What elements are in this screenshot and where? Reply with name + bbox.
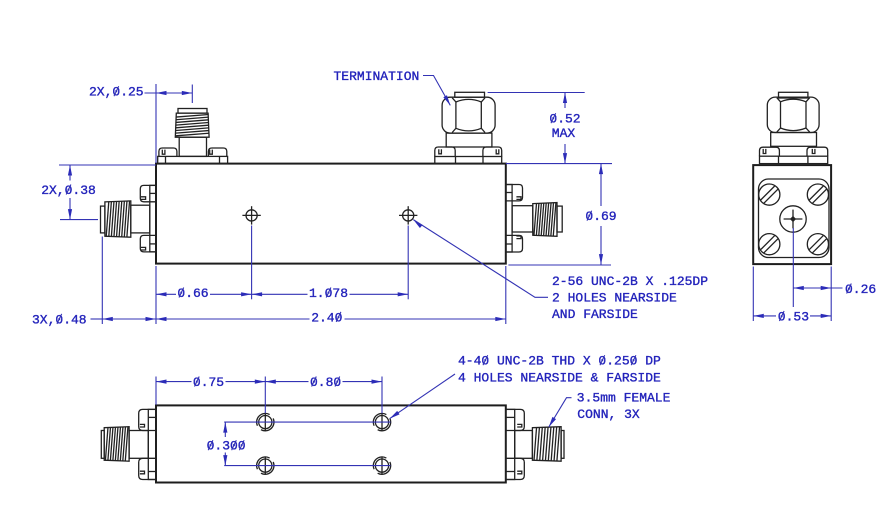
dimension 2X,0.38: extension line at body top edge (left) [59,164,156,166]
side view: flange screw S4 [807,234,828,255]
top view: SMA female connector J2 (input port, left end) [101,206,105,233]
dimension 1.078: dimension line and arrows [252,293,308,295]
leader 3.5mm connector: leader line and arrow [549,398,572,427]
dimension 0.52 MAX: extension line at body top edge (right) [506,163,612,165]
svg-text:0.53: 0.53 [778,309,809,324]
dimension 2.40: extension line at body right edge (bottom) [505,266,507,324]
bottom view: tapped hole T1 (4-40) [264,413,266,430]
dimension 2X,0.38: extension line at J2 centerline [60,219,98,221]
dimension 2X,0.25: dimension line and arrows [145,92,193,94]
dimension 0.26: centerline from pin [792,228,794,307]
dimension 0.66 / 1.078: extension line from hole H2 [407,226,409,300]
svg-text:4 HOLES NEARSIDE & FARSIDE: 4 HOLES NEARSIDE & FARSIDE [458,370,661,385]
dimension 0.75: dimension line and arrows [156,381,192,383]
svg-text:0.26: 0.26 [845,282,876,297]
side view: center pin contact [780,206,806,232]
dimension 0.75 / 0.80: extension line at body left edge (bottom view) [155,377,157,405]
top view: SMA female connector J1 (coupled port, top left) [178,109,207,114]
svg-text:0.52: 0.52 [549,112,580,127]
svg-text:0.69: 0.69 [585,209,616,224]
side view: coupler body end face [753,165,831,264]
bottom view: SMA female connector J2 (left end) [101,431,104,459]
dimension 3X,0.48: extension line at body left edge (bottom) [155,266,157,324]
dimension 0.66 / 1.078: extension line from hole H1 [251,226,253,300]
dimension 2X,0.38: dimension line and arrows [69,165,71,181]
dimension 0.300: centerline through holes T3-T4 [224,465,390,467]
top view: SMA female connector J3 (output port, right end) [557,206,562,232]
dimension 0.69: extension line at body bottom edge (right) [508,264,611,266]
svg-text:TERMINATION: TERMINATION [334,69,420,84]
leader TERMINATION: leader line and arrow [423,76,450,106]
dimension 0.75 / 0.80: extension line from hole T1 [264,377,266,414]
svg-text:2-56 UNC-2B X .125DP: 2-56 UNC-2B X .125DP [552,274,708,289]
dimension 0.80: dimension line and arrows [265,381,308,383]
leader 2-56 holes: arrow and leader line [413,220,422,228]
side view: flange screw S3 [759,234,780,255]
dimension 0.26: extension line at flange right edge [830,267,832,322]
dimension 0.26: dimension line and arrows [793,287,842,289]
dimension 2X,0.25: extension tick at J1 centerline [191,85,193,104]
bottom view: tapped hole T3 (4-40) [264,457,266,474]
dimension 0.53: extension line at flange left edge [752,267,754,322]
svg-text:AND FARSIDE: AND FARSIDE [552,307,638,322]
dimension 3X,0.48: dimension line and arrows [91,318,103,320]
bottom view: coupler body outline [156,405,506,482]
dimension 0.53: dimension line and arrows [753,315,776,317]
dimension 0.69: dimension line and arrows [600,164,602,206]
svg-text:0.75: 0.75 [193,375,224,390]
top view: mounting hole H1 (2-56) [251,206,253,224]
dimension 0.75 / 0.80: extension line from hole T2 [381,377,383,414]
dimension 2.40: dimension line and arrows [156,318,310,320]
dimension 0.52 MAX: extension line at termination top [488,92,585,94]
svg-text:2 HOLES NEARSIDE: 2 HOLES NEARSIDE [552,291,677,306]
dimension 0.300: dimension line and arrows [224,422,226,437]
dimension 0.52 MAX: dimension line and arrows [564,93,566,109]
top view: SMA male termination connector J4 [455,92,485,97]
side view: flange screw S2 [807,184,828,205]
bottom view: SMA female connector J3 (right end) [561,431,564,459]
leader 4-40 holes: leader line and arrow [390,374,455,419]
side view: connector flange plate [759,179,830,258]
bottom view: tapped hole T4 (4-40) [381,457,383,474]
svg-text:MAX: MAX [552,126,576,141]
dimension 0.300: centerline through holes T1-T2 [224,421,390,423]
bottom view: tapped hole T2 (4-40) [381,413,383,430]
svg-text:4-40 UNC-2B THD X 0.250 DP: 4-40 UNC-2B THD X 0.250 DP [458,354,661,369]
dimension 2X,0.25: extension line at body left edge [155,84,157,163]
dimension 3X,0.48: extension line at connector tip [101,237,103,325]
top view: mounting hole H2 (2-56) [407,206,409,224]
svg-text:3.5mm FEMALE: 3.5mm FEMALE [577,391,671,406]
side view: SMA male connector (top) [779,92,808,98]
top view: coupler body outline [156,164,506,264]
dimension 0.66: dimension line and arrows [156,293,176,295]
svg-text:CONN, 3X: CONN, 3X [577,407,640,422]
svg-text:0.66: 0.66 [177,286,208,301]
side view: flange screw S1 [759,184,780,205]
